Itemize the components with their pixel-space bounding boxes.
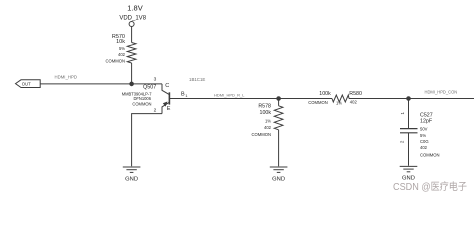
svg-text:DFN1006: DFN1006 [133,96,151,101]
svg-text:E: E [167,106,171,112]
svg-text:5%: 5% [420,133,426,138]
svg-text:12pF: 12pF [420,119,433,125]
svg-text:R580: R580 [349,91,362,97]
svg-text:HDMI_HPD_CON: HDMI_HPD_CON [425,89,458,94]
emitter wire to ground [132,114,162,167]
transistor Q507 emitter label E [167,106,171,112]
svg-text:GND: GND [125,177,138,183]
svg-text:HDMI_HPD: HDMI_HPD [55,75,77,80]
power symbol VDD_1V8 [129,22,134,30]
wire VDD to R570 [131,29,133,43]
resistor R578 [274,106,283,130]
C527 value labels [420,112,440,157]
svg-text:50V: 50V [420,127,428,132]
svg-text:1: 1 [185,94,187,98]
transistor Q507 emitter lead [162,102,169,113]
R580 value labels [308,91,362,106]
svg-text:3: 3 [154,77,157,83]
wire node to R578 [278,99,280,106]
transistor Q507 collector label C [165,83,169,89]
wire node to C527 [408,99,410,129]
transistor Q507 pin 2 number [154,108,157,114]
svg-text:VDD_1V8: VDD_1V8 [119,15,146,21]
svg-text:B: B [181,92,185,98]
connector OUT [16,80,41,88]
transistor Q507 base bar [168,92,170,104]
svg-text:COMMON: COMMON [420,152,440,157]
net label 1B1C1E [189,77,205,82]
svg-text:100k: 100k [319,91,331,97]
power label 1.8V [127,4,142,13]
wire R570 to node [131,63,133,84]
svg-text:402: 402 [420,145,428,150]
wire HDMI_HPD [40,83,162,85]
ground (C527) [400,166,418,181]
net label HDMI_HPD_R_L [214,92,245,97]
svg-text:1%: 1% [265,118,271,123]
R570 value labels [105,34,125,64]
svg-text:COMMON: COMMON [308,100,328,105]
transistor Q507 emitter arrow [163,102,168,107]
net VDD_1V8 label [119,15,146,21]
svg-text:C0G: C0G [420,139,429,144]
net label HDMI_HPD [55,75,77,80]
svg-text:Q507: Q507 [143,84,156,90]
watermark CSDN [393,180,467,193]
wire base to R578 node [169,98,278,100]
svg-text:COMMON: COMMON [105,59,125,64]
wire R578 node to R580 [279,98,332,100]
ground (emitter) [123,167,141,183]
svg-text:1: 1 [400,111,405,114]
capacitor C527 pin 2 number [400,140,405,143]
node junction R578 [277,97,281,101]
svg-text:GND: GND [272,177,285,183]
svg-text:C: C [165,83,169,89]
transistor Q507 part number [122,91,153,106]
resistor R580 [332,95,349,102]
capacitor C527 pin 1 number [400,111,405,114]
svg-text:CSDN @医疗电子: CSDN @医疗电子 [393,180,467,193]
svg-text:1.8V: 1.8V [127,4,142,13]
wire C527 to ground [408,133,410,166]
svg-text:COMMON: COMMON [251,132,271,137]
svg-text:402: 402 [264,125,272,130]
R578 value labels [251,104,271,137]
transistor Q2 pin 3 number [154,77,157,83]
wire R578 to ground [278,130,280,167]
node junction base/pullup [130,82,134,86]
capacitor C527 [400,129,418,133]
svg-text:10k: 10k [116,39,125,45]
svg-text:OUT: OUT [22,82,31,87]
net label HDMI_HPD_CON [425,89,458,94]
svg-text:100k: 100k [260,110,272,116]
svg-text:HDMI_HPD_R_L: HDMI_HPD_R_L [214,92,245,97]
wire R580 to C527 node [349,98,409,100]
svg-text:2: 2 [400,140,405,143]
svg-text:R578: R578 [258,104,271,110]
transistor Q507 base label B [181,92,188,98]
svg-text:1%: 1% [336,101,342,106]
transistor Q507 reference [143,84,156,90]
transistor Q507 collector lead [162,84,169,95]
ground (R578) [270,167,288,183]
svg-text:2: 2 [154,108,157,114]
svg-text:402: 402 [118,52,126,57]
svg-text:1B1C1E: 1B1C1E [189,77,205,82]
svg-text:COMMON: COMMON [132,102,151,107]
resistor R570 [127,43,136,64]
svg-text:402: 402 [350,99,358,104]
wire HDMI_HPD_CON to edge [409,98,474,100]
svg-text:C527: C527 [420,112,433,118]
svg-text:GND: GND [402,176,415,182]
svg-text:5%: 5% [119,46,125,51]
node junction C527 [407,97,411,101]
